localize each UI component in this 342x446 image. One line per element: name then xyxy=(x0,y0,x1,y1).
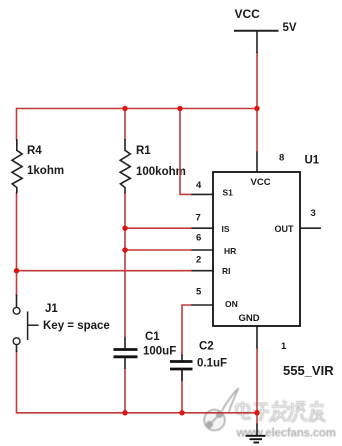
svg-text:0.1uF: 0.1uF xyxy=(197,358,227,370)
svg-text:3: 3 xyxy=(311,208,316,219)
svg-text:6: 6 xyxy=(196,233,201,244)
svg-text:C1: C1 xyxy=(145,331,160,343)
svg-text:100kohm: 100kohm xyxy=(136,166,186,178)
svg-text:1kohm: 1kohm xyxy=(27,165,64,177)
svg-text:1: 1 xyxy=(281,341,287,352)
svg-text:5: 5 xyxy=(196,287,202,298)
svg-text:S1: S1 xyxy=(223,188,234,198)
svg-text:R4: R4 xyxy=(27,145,42,157)
svg-text:555_VIR: 555_VIR xyxy=(283,363,334,378)
svg-text:OUT: OUT xyxy=(275,224,295,234)
svg-text:VCC: VCC xyxy=(251,177,271,188)
svg-text:RI: RI xyxy=(222,266,231,276)
svg-text:IS: IS xyxy=(222,224,230,234)
svg-text:U1: U1 xyxy=(305,155,320,167)
svg-text:C2: C2 xyxy=(199,341,214,353)
svg-text:VCC: VCC xyxy=(235,7,261,21)
svg-text:ON: ON xyxy=(225,299,238,309)
svg-text:100uF: 100uF xyxy=(143,346,176,358)
svg-text:J1: J1 xyxy=(45,303,58,315)
svg-text:R1: R1 xyxy=(136,145,151,157)
svg-text:8: 8 xyxy=(279,153,284,164)
svg-text:7: 7 xyxy=(196,213,201,224)
svg-text:GND: GND xyxy=(239,313,260,324)
svg-text:5V: 5V xyxy=(283,22,297,34)
svg-text:4: 4 xyxy=(196,180,202,191)
svg-text:Key = space: Key = space xyxy=(43,320,110,332)
svg-text:HR: HR xyxy=(224,246,236,256)
svg-text:www.elecfans.com: www.elecfans.com xyxy=(236,428,336,440)
svg-text:2: 2 xyxy=(196,255,201,266)
